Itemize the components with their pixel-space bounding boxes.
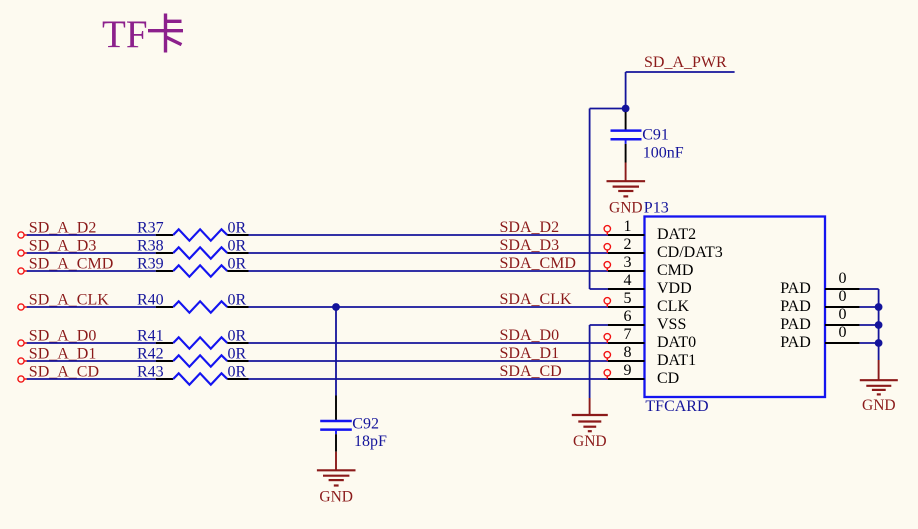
pin 9 CD (604, 362, 679, 387)
wire PAD 4 to GND bus (860, 342, 879, 344)
svg-text:DAT1: DAT1 (657, 352, 696, 369)
title TF卡 (102, 13, 183, 56)
svg-text:8: 8 (624, 344, 632, 361)
svg-text:R39: R39 (137, 256, 164, 273)
svg-text:0R: 0R (228, 292, 247, 309)
wire R38 to pin (SDA_D3) (249, 252, 609, 254)
svg-text:100nF: 100nF (643, 144, 684, 161)
resistor R39 0R (156, 265, 249, 276)
svg-text:0: 0 (839, 306, 847, 323)
pin PAD 2 (780, 288, 859, 315)
label R38 designator (137, 238, 164, 255)
svg-text:SDA_CLK: SDA_CLK (500, 291, 572, 308)
svg-text:PAD: PAD (780, 298, 811, 315)
terminal SD_A_D1 (18, 358, 27, 364)
junction PAD bus y=325 (875, 321, 883, 329)
svg-text:R37: R37 (137, 220, 164, 237)
ground below PAD bus (860, 360, 898, 414)
junction PAD bus y=343 (875, 339, 883, 347)
svg-text:SDA_CD: SDA_CD (500, 363, 562, 380)
resistor R43 0R (156, 373, 249, 384)
svg-text:0R: 0R (228, 256, 247, 273)
svg-text:TF: TF (102, 13, 148, 56)
svg-text:DAT0: DAT0 (657, 334, 696, 351)
label C92 designator (352, 416, 379, 433)
svg-text:R41: R41 (137, 328, 164, 345)
svg-text:SDA_CMD: SDA_CMD (500, 255, 576, 272)
svg-text:VDD: VDD (657, 280, 692, 297)
pin 8 DAT1 (604, 344, 696, 369)
svg-text:SD_A_D0: SD_A_D0 (29, 328, 97, 345)
pin 6 VSS (608, 308, 686, 333)
net label SDA_D3 (500, 237, 560, 254)
terminal SD_A_D2 (18, 232, 27, 238)
label R39 value 0R (228, 256, 247, 273)
label R37 designator (137, 220, 164, 237)
label R41 value 0R (228, 328, 247, 345)
svg-text:VSS: VSS (657, 316, 686, 333)
svg-text:SDA_D2: SDA_D2 (500, 219, 560, 236)
wire SD_A_CD to R43 (27, 378, 156, 380)
wire SD_A_D3 to R38 (27, 252, 156, 254)
resistor R37 0R (156, 229, 249, 240)
svg-text:C91: C91 (642, 127, 669, 144)
wire PAD 2 to GND bus (860, 306, 879, 308)
pin 5 CLK (604, 290, 689, 315)
svg-text:3: 3 (624, 254, 632, 271)
wire junction to VDD branch horizontal (590, 108, 626, 110)
svg-text:7: 7 (624, 326, 632, 343)
svg-text:PAD: PAD (780, 334, 811, 351)
net label SDA_CD (500, 363, 562, 380)
label R43 value 0R (228, 364, 247, 381)
svg-text:SD_A_D1: SD_A_D1 (29, 346, 97, 363)
svg-text:0: 0 (839, 324, 847, 341)
pin 1 DAT2 (604, 218, 696, 243)
svg-text:SD_A_CMD: SD_A_CMD (29, 256, 113, 273)
label R40 value 0R (228, 292, 247, 309)
wire PAD GND bus vertical (878, 289, 880, 360)
label R38 value 0R (228, 238, 247, 255)
pin PAD 3 (780, 306, 859, 333)
svg-text:TFCARD: TFCARD (645, 398, 708, 415)
svg-text:C92: C92 (352, 416, 379, 433)
svg-text:P13: P13 (644, 200, 669, 217)
wire R39 to pin (SDA_CMD) (249, 270, 609, 272)
junction CLK / C92 (332, 303, 340, 311)
ground below C91 (607, 163, 646, 217)
wire R43 to pin (SDA_CD) (249, 378, 609, 380)
svg-text:R38: R38 (137, 238, 164, 255)
label R41 designator (137, 328, 164, 345)
svg-text:18pF: 18pF (354, 433, 387, 450)
label R37 value 0R (228, 220, 247, 237)
terminal SD_A_D3 (18, 250, 27, 256)
svg-text:SD_A_D2: SD_A_D2 (29, 220, 97, 237)
label C91 designator (642, 127, 669, 144)
label C92 value 18pF (354, 433, 387, 450)
svg-text:R43: R43 (137, 364, 164, 381)
svg-text:0R: 0R (228, 364, 247, 381)
wire SD_A_CLK to R40 (27, 306, 156, 308)
resistor R41 0R (156, 337, 249, 348)
svg-text:1: 1 (624, 218, 632, 235)
pin 4 VDD (608, 272, 692, 297)
svg-text:0: 0 (839, 270, 847, 287)
svg-text:5: 5 (624, 290, 632, 307)
svg-text:0R: 0R (228, 328, 247, 345)
svg-text:DAT2: DAT2 (657, 226, 696, 243)
resistor R42 0R (156, 355, 249, 366)
wire SD_A_D1 to R42 (27, 360, 156, 362)
wire PAD 1 to GND bus (860, 288, 879, 290)
net label SDA_D2 (500, 219, 560, 236)
net label SD_A_D3 (29, 238, 97, 255)
wire SD_A_D0 to R41 (27, 342, 156, 344)
wire to pin 4 VDD (590, 288, 608, 290)
label R42 value 0R (228, 346, 247, 363)
net label SD_A_CD (29, 364, 99, 381)
pin PAD 1 (780, 270, 859, 297)
svg-text:GND: GND (573, 433, 607, 450)
svg-text:R42: R42 (137, 346, 164, 363)
svg-text:SD_A_PWR: SD_A_PWR (644, 54, 727, 71)
svg-text:0: 0 (839, 288, 847, 305)
wire SD_A_CMD to R39 (27, 270, 156, 272)
svg-text:GND: GND (609, 200, 643, 217)
label R39 designator (137, 256, 164, 273)
ground below VSS (572, 398, 608, 450)
wire R42 to pin (SDA_D1) (249, 360, 609, 362)
svg-text:CMD: CMD (657, 262, 693, 279)
svg-text:6: 6 (624, 308, 632, 325)
wire R40 to pin (SDA_CLK) (249, 306, 609, 308)
net label SD_A_D1 (29, 346, 97, 363)
connector P13 TFCARD body (645, 217, 826, 398)
capacitor C92 (320, 396, 352, 452)
svg-text:GND: GND (319, 489, 353, 506)
wire SD_A_D2 to R37 (27, 234, 156, 236)
pin 2 CD/DAT3 (604, 236, 723, 261)
pin 3 CMD (604, 254, 693, 279)
ground below C92 (317, 452, 356, 506)
svg-text:SD_A_CLK: SD_A_CLK (29, 292, 109, 309)
label R43 designator (137, 364, 164, 381)
svg-text:SDA_D1: SDA_D1 (500, 345, 560, 362)
net label SDA_CMD (500, 255, 576, 272)
svg-text:PAD: PAD (780, 316, 811, 333)
svg-text:CD/DAT3: CD/DAT3 (657, 244, 723, 261)
terminal SD_A_D0 (18, 340, 27, 346)
svg-text:PAD: PAD (780, 280, 811, 297)
junction PAD bus y=307 (875, 303, 883, 311)
net label SD_A_CMD (29, 256, 113, 273)
svg-text:SD_A_D3: SD_A_D3 (29, 238, 97, 255)
capacitor C91 (611, 112, 642, 163)
label C91 value 100nF (643, 144, 684, 161)
wire R41 to pin (SDA_D0) (249, 342, 609, 344)
net label SDA_CLK (500, 291, 572, 308)
resistor R38 0R (156, 247, 249, 258)
label TFCARD comment (645, 398, 708, 415)
svg-text:0R: 0R (228, 238, 247, 255)
wire PAD 3 to GND bus (860, 324, 879, 326)
svg-text:9: 9 (624, 362, 632, 379)
wire SD_A_PWR drop to junction (625, 72, 627, 109)
svg-text:SDA_D0: SDA_D0 (500, 327, 560, 344)
wire SD_A_PWR horizontal (626, 71, 735, 73)
wire to pin 6 VSS (590, 324, 608, 326)
wire R37 to pin (SDA_D2) (249, 234, 609, 236)
net label SD_A_CLK (29, 292, 109, 309)
net SD_A_PWR label (644, 54, 727, 71)
svg-text:2: 2 (624, 236, 632, 253)
wire CLK junction down to C92 (335, 307, 337, 396)
terminal SD_A_CLK (18, 304, 27, 310)
pin PAD 4 (780, 324, 859, 351)
junction at C91 top (622, 105, 630, 113)
svg-text:4: 4 (624, 272, 632, 289)
resistor R40 0R (156, 301, 249, 312)
pin 7 DAT0 (604, 326, 696, 351)
label R42 designator (137, 346, 164, 363)
svg-text:CLK: CLK (657, 298, 689, 315)
svg-text:SDA_D3: SDA_D3 (500, 237, 560, 254)
svg-text:CD: CD (657, 370, 679, 387)
svg-text:0R: 0R (228, 346, 247, 363)
net label SDA_D1 (500, 345, 560, 362)
wire VSS branch vertical (589, 325, 591, 398)
terminal SD_A_CMD (18, 268, 27, 274)
label P13 designator (644, 200, 669, 217)
label R40 designator (137, 292, 164, 309)
net label SD_A_D0 (29, 328, 97, 345)
net label SDA_D0 (500, 327, 560, 344)
svg-text:R40: R40 (137, 292, 164, 309)
svg-text:SD_A_CD: SD_A_CD (29, 364, 99, 381)
wire VDD vertical branch (589, 109, 591, 290)
svg-text:0R: 0R (228, 220, 247, 237)
terminal SD_A_CD (18, 376, 27, 382)
svg-text:GND: GND (862, 397, 896, 414)
net label SD_A_D2 (29, 220, 97, 237)
